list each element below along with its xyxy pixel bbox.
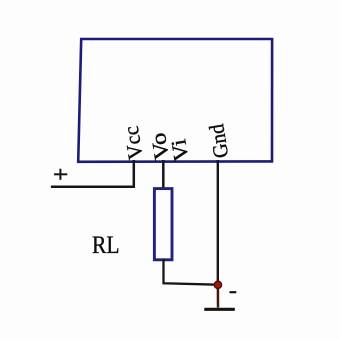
plus terminal marker — [54, 169, 67, 180]
junction node dot — [214, 281, 221, 288]
wire node to ground symbol — [217, 285, 220, 308]
ground — [204, 308, 235, 311]
resistor RL — [154, 189, 172, 260]
svg-text:RL: RL — [92, 232, 120, 259]
svg-text:Vi: Vi — [166, 137, 193, 163]
minus terminal marker — [230, 291, 237, 293]
wire Vcc supply rail — [51, 186, 135, 189]
IC box — [78, 39, 272, 162]
wire Gnd pin down to node — [217, 160, 219, 285]
wire Vcc pin — [133, 160, 136, 188]
wire RL bottom to ground node — [164, 259, 218, 285]
wire Vo pin to RL top — [162, 160, 165, 190]
